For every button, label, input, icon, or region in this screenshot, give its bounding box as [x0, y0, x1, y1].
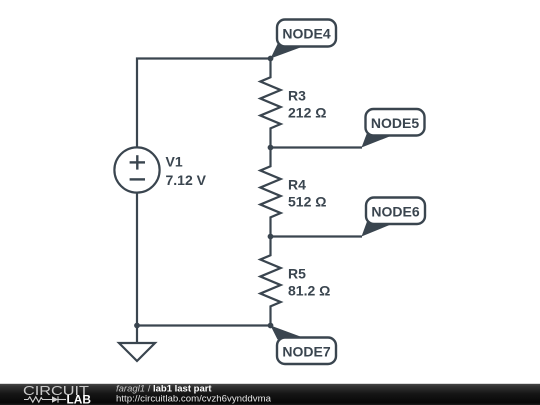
resistor R4 — [260, 148, 280, 237]
svg-text:512 Ω: 512 Ω — [288, 193, 326, 209]
svg-text:NODE4: NODE4 — [282, 26, 330, 42]
junction node6 — [268, 234, 274, 240]
ground — [119, 343, 155, 361]
svg-text:V1: V1 — [166, 154, 183, 170]
logo schematic line: resistor zigzag — [24, 396, 66, 402]
node flag NODE5 — [362, 109, 425, 148]
svg-text:7.12 V: 7.12 V — [166, 172, 207, 188]
svg-text:NODE7: NODE7 — [282, 343, 330, 359]
wire bottom horizontal — [137, 324, 271, 326]
svg-text:R4: R4 — [288, 177, 306, 193]
junction node5 — [268, 145, 274, 151]
junction ground — [134, 323, 140, 329]
svg-text:81.2 Ω: 81.2 Ω — [288, 282, 330, 298]
wire node5 horizontal — [271, 146, 363, 148]
node flag NODE4 — [271, 20, 337, 59]
voltage source V1 — [114, 147, 159, 192]
resistor R5 — [260, 237, 280, 326]
wire top horizontal + left vertical upper — [137, 59, 271, 148]
wire node6 horizontal — [271, 235, 363, 237]
resistor R3 — [260, 59, 280, 148]
junction node4 — [268, 56, 274, 62]
node flag NODE7 — [271, 326, 337, 365]
svg-text:NODE6: NODE6 — [371, 203, 419, 219]
svg-text:LAB: LAB — [67, 394, 92, 405]
svg-text:http://circuitlab.com/cvzh6vyn: http://circuitlab.com/cvzh6vynddvma — [116, 393, 272, 404]
footer bar — [0, 383, 540, 405]
wire left vertical lower + ground stem — [136, 193, 138, 343]
svg-text:R3: R3 — [288, 88, 306, 104]
junction node7 — [268, 323, 274, 329]
svg-text:R5: R5 — [288, 266, 306, 282]
node flag NODE6 — [362, 198, 426, 237]
svg-text:NODE5: NODE5 — [371, 115, 419, 131]
logo diode — [52, 396, 58, 402]
svg-text:212 Ω: 212 Ω — [288, 104, 326, 120]
